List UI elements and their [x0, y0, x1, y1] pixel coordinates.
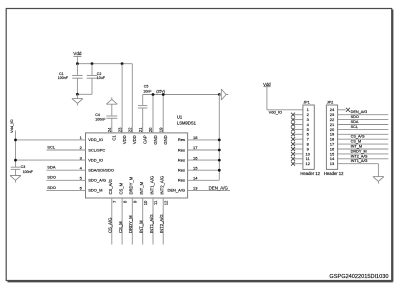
svg-text:10nF: 10nF	[143, 90, 152, 94]
svg-text:VDD_IO: VDD_IO	[88, 137, 103, 142]
svg-text:100nF: 100nF	[23, 170, 34, 174]
svg-text:7: 7	[112, 200, 117, 203]
svg-text:CS_M: CS_M	[118, 221, 123, 233]
svg-text:Vdd: Vdd	[73, 51, 82, 56]
svg-text:INT1_A/G: INT1_A/G	[149, 176, 154, 195]
svg-text:INT_M: INT_M	[139, 220, 144, 233]
svg-text:9: 9	[133, 200, 138, 203]
svg-text:10uF: 10uF	[97, 76, 106, 80]
svg-text:SDA: SDA	[351, 120, 359, 124]
svg-text:13: 13	[193, 186, 198, 191]
svg-text:16: 16	[193, 155, 198, 160]
svg-text:Res: Res	[178, 157, 185, 162]
svg-text:DRDY_M: DRDY_M	[351, 149, 367, 153]
svg-text:DRDY_M: DRDY_M	[128, 215, 133, 233]
svg-text:VDD: VDD	[122, 135, 127, 144]
svg-text:SDO: SDO	[47, 185, 56, 190]
svg-text:Header 12: Header 12	[300, 171, 320, 176]
svg-text:SCL/SPC: SCL/SPC	[88, 147, 105, 152]
svg-text:15: 15	[193, 165, 198, 170]
svg-text:DRDY_M: DRDY_M	[129, 176, 134, 194]
svg-text:19: 19	[158, 127, 163, 132]
svg-text:Vdd_IO: Vdd_IO	[269, 110, 283, 115]
svg-text:24: 24	[107, 127, 112, 132]
svg-text:17: 17	[193, 145, 198, 150]
svg-text:SCL: SCL	[47, 144, 56, 149]
svg-text:Res: Res	[178, 168, 185, 173]
svg-text:C2: C2	[97, 72, 102, 76]
svg-text:CS_M: CS_M	[351, 140, 362, 144]
svg-text:SCL: SCL	[351, 125, 358, 129]
svg-text:DEN_A/G: DEN_A/G	[209, 185, 229, 190]
svg-text:LSM9DS1: LSM9DS1	[177, 121, 197, 126]
svg-text:INT2_A/G: INT2_A/G	[159, 214, 164, 233]
svg-text:Res: Res	[178, 147, 185, 152]
svg-text:VDD: VDD	[132, 135, 137, 144]
svg-text:CAP: CAP	[143, 135, 148, 144]
svg-text:CS_A/G: CS_A/G	[351, 135, 365, 139]
svg-text:SDO_A/G: SDO_A/G	[88, 178, 106, 183]
svg-text:JP1: JP1	[303, 101, 310, 105]
svg-text:CS_A/G: CS_A/G	[108, 218, 113, 233]
svg-text:SDA/SDI/SDO: SDA/SDI/SDO	[88, 168, 114, 173]
svg-text:3: 3	[80, 155, 83, 160]
svg-text:SDO_M: SDO_M	[88, 188, 102, 193]
svg-text:12: 12	[305, 161, 310, 166]
svg-text:12: 12	[163, 200, 168, 205]
svg-text:DEN_A/G: DEN_A/G	[351, 110, 368, 114]
svg-text:14: 14	[193, 176, 198, 181]
svg-text:JP2: JP2	[327, 101, 334, 105]
svg-text:100nF: 100nF	[58, 76, 69, 80]
svg-text:Vdd_IO: Vdd_IO	[9, 119, 14, 133]
svg-text:C1: C1	[59, 72, 64, 76]
svg-text:100nF: 100nF	[95, 117, 106, 121]
svg-text:INT_M: INT_M	[351, 145, 362, 149]
svg-text:CS_A/G: CS_A/G	[108, 179, 113, 194]
svg-text:(25V): (25V)	[156, 90, 165, 94]
svg-text:SDO: SDO	[47, 175, 56, 180]
svg-text:23: 23	[117, 127, 122, 132]
svg-text:18: 18	[193, 135, 198, 140]
svg-text:INT2_A/G: INT2_A/G	[160, 176, 165, 195]
svg-text:SDA: SDA	[47, 165, 56, 170]
svg-text:11: 11	[153, 200, 158, 205]
svg-text:VDD_IO: VDD_IO	[88, 157, 103, 162]
svg-text:GND: GND	[153, 135, 158, 144]
svg-text:GND: GND	[163, 135, 168, 144]
svg-text:5: 5	[80, 176, 83, 181]
svg-text:10: 10	[143, 200, 148, 205]
svg-text:21: 21	[138, 127, 143, 132]
svg-text:GSPG24022015DI1030: GSPG24022015DI1030	[329, 274, 388, 280]
svg-text:Res: Res	[178, 178, 185, 183]
svg-text:8: 8	[122, 200, 127, 203]
svg-text:CS_M: CS_M	[118, 182, 123, 194]
svg-text:Header 12: Header 12	[324, 171, 344, 176]
svg-text:U1: U1	[177, 115, 183, 120]
svg-text:Res: Res	[178, 137, 185, 142]
svg-text:2: 2	[80, 145, 83, 150]
svg-text:SDO: SDO	[351, 115, 359, 119]
svg-text:INT1_A/G: INT1_A/G	[351, 159, 368, 163]
svg-text:4: 4	[80, 165, 83, 170]
svg-text:22: 22	[128, 127, 133, 132]
svg-text:6: 6	[80, 186, 83, 191]
svg-text:INT_M: INT_M	[139, 181, 144, 194]
svg-text:C3: C3	[21, 165, 26, 169]
svg-text:1: 1	[80, 135, 83, 140]
svg-text:INT1_A/G: INT1_A/G	[149, 214, 154, 233]
svg-text:INT2_A/G: INT2_A/G	[351, 154, 368, 158]
svg-text:13: 13	[330, 161, 335, 166]
svg-text:C1: C1	[112, 135, 117, 141]
svg-text:20: 20	[148, 127, 153, 132]
svg-text:DEN_A/G: DEN_A/G	[167, 188, 185, 193]
svg-text:C5: C5	[144, 85, 149, 89]
